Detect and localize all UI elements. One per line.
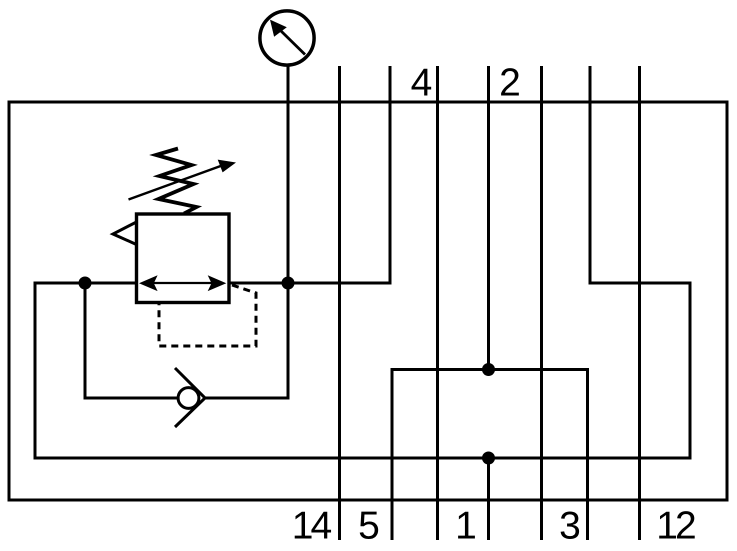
wire: left riser supply (x=35) [34,282,37,460]
wire: right riser supply (x=690) [689,282,692,459]
wire: regulated output line y=283 right of regulator [228,282,392,285]
wire: port 2 upper line (x=488) [487,66,490,370]
wire: check valve left riser (x=85) [84,283,87,400]
wire: channel line 12 (x=640) [638,66,641,540]
node: junction rail / port 2 [482,363,495,376]
pressure gauge G1 [260,11,314,65]
svg-text:5: 5 [358,505,380,548]
check valve CV1 seat [175,368,205,427]
wire: upper supply link y=283 right segment [589,282,692,285]
wire: channel line 1-to-valve upper riser (x=590) [589,66,592,285]
wire: port 3 lower riser (x=587.5) [586,368,589,540]
wire: gauge stem and check-valve right riser (x=288) [287,64,290,400]
wire: check valve line left segment y=398 [84,397,178,400]
pilot line (dashed) [159,285,256,346]
wire: check valve line right segment y=398 [204,397,290,400]
wire: channel line 14 (x=340) [338,66,341,540]
svg-text:4: 4 [411,62,433,105]
check valve CV1 ball [178,388,199,409]
wire: port 5 upper riser to regulator output (x=390) [389,66,392,283]
wire: regulated rail to port 2 (y=369.5) [391,368,590,371]
wire: channel line 4 (x=438) [436,66,439,540]
svg-text:2: 2 [499,62,521,105]
svg-text:3: 3 [559,505,581,548]
enclosure box [9,102,727,500]
svg-text:12: 12 [656,505,695,548]
wire: regulator input line y=283 left segment [35,282,138,285]
wire: channel line pass-through (x=542) [540,66,543,540]
regulator relief vent triangle [113,222,138,246]
wire: port 1 bottom stub (x=488) [487,458,490,540]
node: junction gauge/output line [282,277,295,290]
svg-text:14: 14 [292,505,332,548]
regulator body R1 [137,214,230,303]
node: junction supply rail / port 1 [482,452,495,465]
gauge needle [270,20,305,55]
regulator flow double arrow [139,275,226,291]
regulator adjustment arrow [129,160,237,200]
wire: port 5 lower riser (x=392) [391,368,394,540]
regulator spring [156,149,197,214]
node: junction on input line [79,277,92,290]
wire: supply rail y=458 [34,457,692,460]
svg-text:1: 1 [455,505,477,548]
